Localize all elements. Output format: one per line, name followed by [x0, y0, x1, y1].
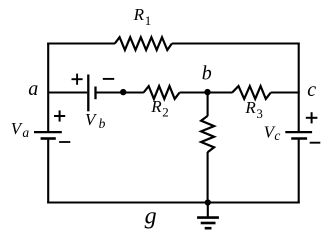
resistor R2: [144, 86, 180, 99]
svg-text:b: b: [202, 63, 212, 85]
resistor R1: [115, 37, 172, 50]
wire right side lower: battery Vc to bottom-right corner: [298, 139, 300, 204]
svg-text:R: R: [244, 98, 256, 117]
resistor R3: [232, 86, 271, 99]
battery Va plus sign: [54, 110, 65, 121]
ground symbol: [197, 218, 219, 229]
node b junction dot: [204, 89, 210, 95]
svg-text:a: a: [28, 78, 38, 100]
wire top-right: from R1 to top-right corner: [172, 42, 300, 44]
battery Vb plus sign: [72, 74, 83, 85]
battery Vb minus sign: [103, 78, 114, 80]
battery Vc: [285, 132, 312, 138]
wire left side lower: battery Va to bottom-left corner: [47, 139, 49, 204]
svg-text:c: c: [274, 128, 280, 143]
ground junction dot on bottom wire: [205, 199, 211, 205]
wire top-left: from top-left corner to R1: [47, 42, 115, 44]
wire middle: node a to battery Vb: [48, 91, 87, 93]
wire right side upper: top-right corner to battery Vc: [298, 43, 300, 132]
vertical resistor between node b and bottom wire (unlabeled): [201, 116, 214, 152]
svg-text:g: g: [145, 203, 157, 229]
svg-text:c: c: [307, 79, 316, 101]
ground stub wire: [207, 203, 209, 217]
wire: R3 to node c: [271, 91, 300, 93]
svg-text:R: R: [150, 97, 162, 116]
svg-text:b: b: [99, 116, 106, 131]
battery Va minus sign: [59, 141, 70, 143]
svg-text:1: 1: [145, 13, 152, 28]
battery Vb: [88, 75, 95, 112]
battery Vc minus sign: [310, 142, 321, 144]
wire left side upper: top-left corner through node a to battery Va: [47, 43, 49, 132]
wire: R2 to node b: [180, 91, 233, 93]
svg-text:a: a: [22, 125, 29, 140]
junction dot between Vb and R2: [120, 89, 126, 95]
wire bottom: bottom-left corner to bottom-right corner: [47, 201, 300, 203]
wire: node b down to vertical resistor: [207, 93, 209, 117]
svg-text:3: 3: [256, 106, 263, 121]
battery Va: [34, 132, 62, 138]
svg-text:R: R: [133, 5, 145, 24]
svg-text:2: 2: [162, 104, 169, 119]
battery Vc plus sign: [306, 112, 318, 123]
wire: vertical resistor down to bottom wire: [207, 152, 209, 203]
wire: battery Vb to R2: [96, 91, 144, 93]
